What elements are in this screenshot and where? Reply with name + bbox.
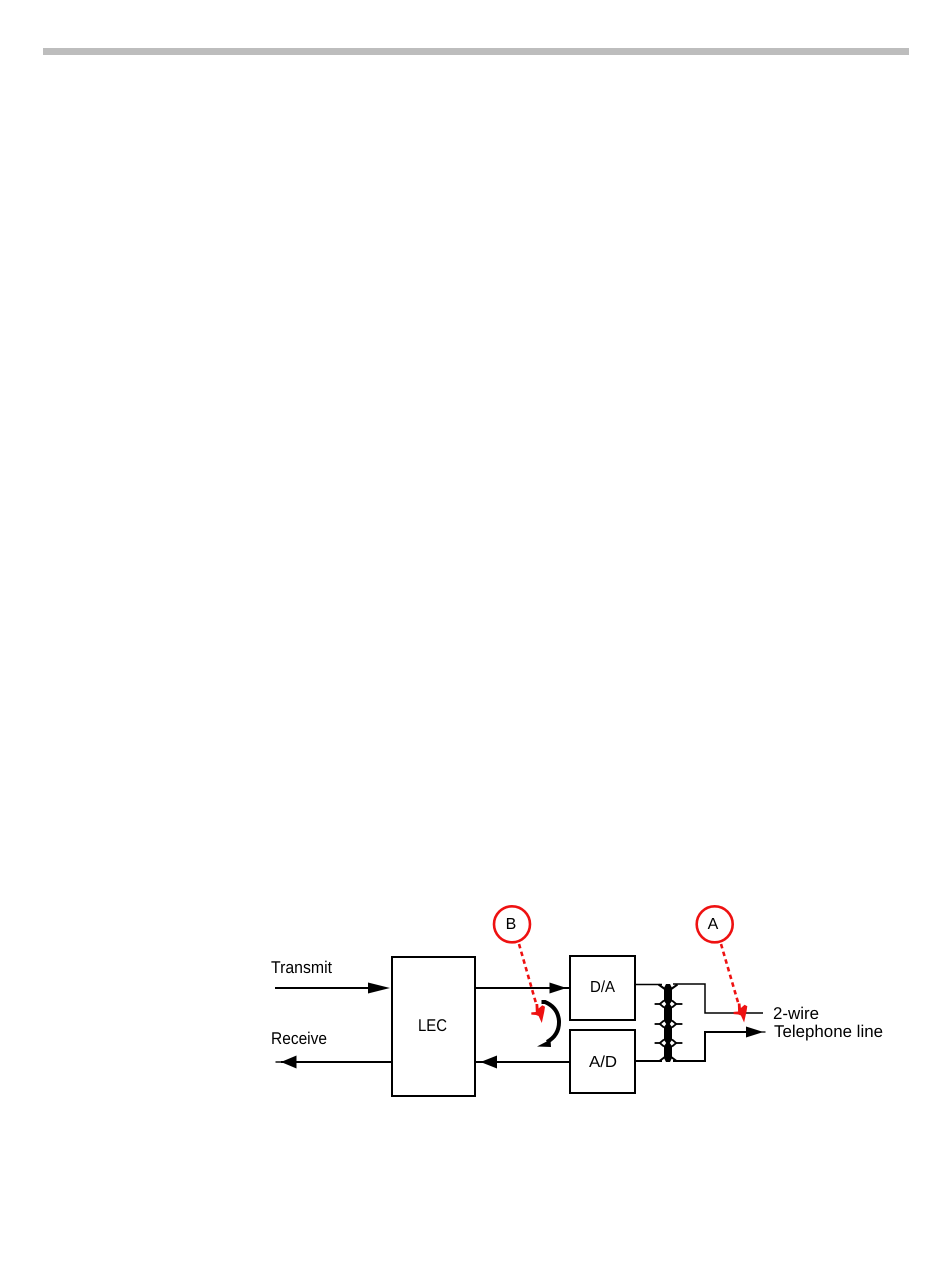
arrowhead receive output xyxy=(281,1056,297,1069)
echo arc foot arrowhead xyxy=(537,1040,551,1048)
wire A/D to transformer xyxy=(636,1060,662,1062)
svg-text:LEC: LEC xyxy=(418,1016,447,1035)
transformer primary tick 2 xyxy=(655,1021,664,1028)
transformer T1 winding body xyxy=(664,984,672,1062)
svg-text:A: A xyxy=(708,916,719,933)
svg-text:A/D: A/D xyxy=(589,1054,617,1071)
wire D/A to transformer xyxy=(636,984,662,986)
arrowhead into LEC from A/D xyxy=(481,1056,498,1069)
transformer secondary tick 1 xyxy=(672,1001,682,1008)
callout A circle xyxy=(697,906,733,942)
callout B arrowhead xyxy=(531,1004,545,1023)
wire transformer secondary top to 2-wire node xyxy=(673,984,763,1013)
wire receive output xyxy=(281,1061,391,1063)
callout B leader xyxy=(519,944,537,1005)
svg-text:Telephone line: Telephone line xyxy=(774,1022,883,1041)
svg-text:B: B xyxy=(506,916,517,933)
svg-text:D/A: D/A xyxy=(590,979,615,996)
svg-text:Receive: Receive xyxy=(271,1029,327,1048)
block D/A xyxy=(570,956,635,1020)
wire A/D to LEC xyxy=(476,1061,570,1063)
transformer primary tick 3 xyxy=(655,1040,664,1047)
wire transmit input xyxy=(275,987,372,989)
transformer primary tick 1 xyxy=(655,1001,664,1008)
arrowhead transmit into LEC xyxy=(368,983,390,994)
block LEC xyxy=(392,957,475,1096)
transformer top-left taper xyxy=(659,985,666,990)
transformer bottom-right taper xyxy=(671,1057,677,1062)
callout A arrowhead xyxy=(734,1004,748,1023)
arrowhead telephone line xyxy=(746,1027,764,1038)
arrowhead into D/A xyxy=(550,983,567,994)
transformer secondary tick 2 xyxy=(672,1021,682,1028)
block A/D xyxy=(570,1030,635,1093)
wire transformer secondary bottom to telephone line xyxy=(673,1032,748,1061)
wire LEC to D/A xyxy=(475,987,569,989)
svg-text:Transmit: Transmit xyxy=(271,958,332,977)
svg-text:2-wire: 2-wire xyxy=(773,1004,819,1023)
echo path arc xyxy=(542,1002,560,1042)
callout A leader xyxy=(721,944,739,1004)
callout B circle xyxy=(494,906,530,942)
transformer bottom-left taper xyxy=(660,1057,666,1062)
transformer secondary tick 3 xyxy=(672,1040,682,1047)
transformer top-right taper xyxy=(671,985,678,990)
